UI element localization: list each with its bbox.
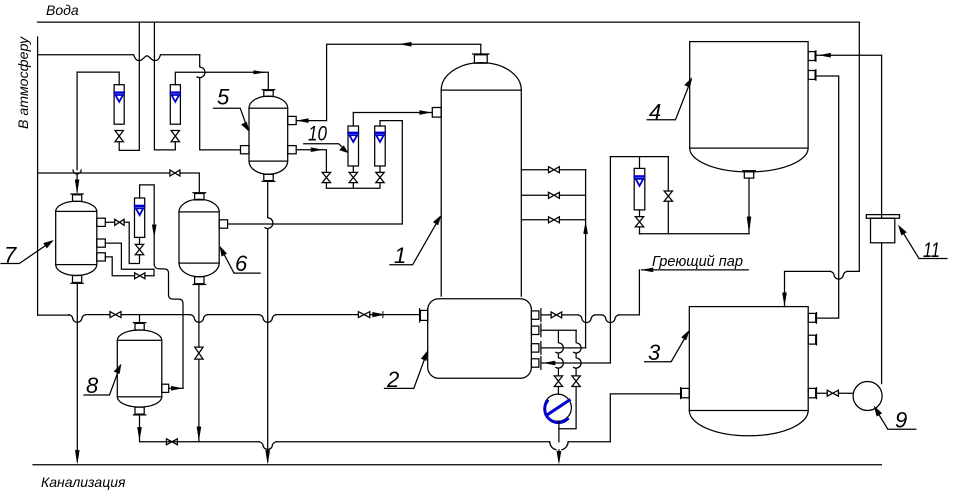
label 7 [1, 241, 53, 268]
svg-text:Канализация: Канализация [41, 474, 126, 490]
wire tank 3 pump suction line [816, 392, 854, 394]
valve on left loop [554, 376, 562, 387]
valve below rot10 right tube [376, 172, 384, 182]
vessel 5 shell [249, 96, 288, 174]
vessel 7 right nozzle N3 [97, 253, 106, 261]
wire water drop line 2 x=154.4 [154, 22, 175, 150]
label 6 [220, 247, 260, 277]
wire vessel 6 right nozzle to rot10 riser [228, 121, 403, 224]
arrow on vessel 8 drain [138, 428, 142, 440]
arrow left on steam line [642, 268, 653, 272]
valve manifold 3 [549, 217, 560, 223]
vessel 5 left nozzle [241, 146, 250, 154]
arrow down into vessel 7 [75, 180, 79, 192]
wire manifold riser x=585.6 down to reboiler vapor line [585, 170, 587, 348]
wire feed header y=173 from vent vertical to vessel 6 [38, 173, 200, 193]
svg-text:Греющий пар: Греющий пар [652, 254, 743, 270]
tank 4 right nozzle upper [808, 51, 816, 62]
vessel 7 right nozzle N2 [97, 239, 106, 247]
wire vent header y=54.8 right part [161, 54, 200, 56]
vessel 5 top nozzle [262, 90, 275, 97]
wire water main drop x=859.4 to tank 3 feed [858, 22, 860, 271]
pump 9 circle [853, 382, 882, 411]
vessel 8 bottom nozzle [133, 407, 145, 415]
wire vessel5 right lower nozzle to rot10 feed [296, 150, 326, 173]
jump dip of steam line under manifold riser x=585.6 [578, 315, 595, 323]
tank 3 shell [689, 307, 808, 436]
label 10 [304, 123, 348, 153]
arrow down into tank 3 [783, 293, 787, 305]
arrow vessel 7 drain into sewer [75, 450, 79, 463]
label 4 [647, 78, 692, 125]
label 9 [874, 407, 916, 433]
tank 3 right nozzle upper [808, 313, 816, 324]
wire vent vertical x=199.7 upper part [199, 55, 201, 67]
wire sewer main y=464.7 [33, 464, 881, 466]
label 1 [390, 216, 441, 269]
column 1 shell [441, 63, 521, 297]
column 1 left nozzle [432, 108, 441, 118]
rotameter 10 right tube [375, 126, 386, 166]
valve on vessel7 N3 line [135, 273, 145, 279]
funnel of collector into sewer [550, 442, 568, 450]
svg-text:6: 6 [235, 251, 248, 276]
wire vent header y=54.8 left part [38, 54, 134, 56]
jump dip of steam line under riser x=610.4 [602, 315, 619, 323]
wire pump discharge riser x=881.6 up to tank 4 [816, 55, 882, 383]
valve on vessel7 N1 line [115, 219, 124, 225]
tank 4 right nozzle lower [808, 70, 816, 81]
wire tank 3 top feed with arrow [785, 271, 860, 306]
valve below rotameter FI-b [171, 131, 179, 142]
wire bottom header y=233.8 to tank 4 drain [640, 233, 750, 235]
wire rotameter FI-b top header to vessel 5 top [175, 72, 268, 90]
wire vessel7 N1 to gauge bottom [105, 222, 139, 263]
wire left loop valve to instrument circle [557, 387, 559, 395]
rotameter FI-a (water to vessel 7) [114, 85, 124, 125]
tank 3 left nozzle [681, 388, 690, 399]
arrow left into tank 4 upper nozzle [820, 53, 831, 57]
vessel 8 right nozzle [162, 384, 169, 392]
wire left loop downcomer with jumps over N3 and N4 lines [555, 330, 563, 376]
wire junction steps down to x=183 drop [154, 265, 183, 315]
vessel 2 right nozzle N2 [531, 324, 541, 337]
tank 4 bottom nozzle [743, 171, 756, 178]
label 8 [84, 364, 121, 398]
rotameter 10 left tube [348, 126, 359, 166]
wire manifold line 3 [521, 219, 585, 221]
wire collector drop into sewer [558, 450, 560, 461]
valve on right loop [572, 376, 580, 387]
arrow into column left nozzle [420, 111, 431, 115]
label 3 [645, 331, 689, 366]
wire rot10 right tube stubs [380, 121, 402, 173]
valve on pump suction [827, 390, 838, 396]
wire collector y=441.8 [166, 441, 610, 443]
wire water main header y=22 [38, 21, 860, 23]
vessel 8 top nozzle [133, 323, 145, 330]
label 2 [385, 351, 428, 392]
svg-text:Вода: Вода [46, 2, 79, 18]
wire vessel 8 outlet to drop x=183 [169, 387, 183, 389]
wire vessel 5 drain lower part to sewer [267, 229, 269, 461]
label 11 [899, 226, 948, 263]
valve below gauge rotameter [135, 244, 143, 254]
arrow collector into sewer [557, 452, 561, 464]
valve below rot10 left tube [349, 172, 357, 182]
wire vessel7 N3 line through valve to junction [105, 257, 154, 276]
jump of vessel 5 drain over vessel6-rot10 line [265, 218, 273, 229]
arrow down on gauge downcomer [152, 225, 156, 237]
vessel 7 shell [56, 201, 97, 275]
wire vessel 8 drain to collector y=441.8 [140, 414, 167, 442]
wire rot10 left tube stubs [352, 113, 354, 173]
valve on feed line before vessel 2 [358, 312, 369, 318]
arrow flow right into vessel 5 top line [254, 71, 265, 74]
separator 11 on discharge riser [866, 215, 899, 243]
valve on vessel 6 drain [195, 347, 203, 359]
wire instrument circle bottom to collector [558, 421, 560, 442]
wire vessel 7 drain x=77.3 to sewer [76, 283, 78, 462]
wire rot10 bottom header [326, 183, 380, 189]
wire rot10 outlet header to column left nozzle [353, 112, 431, 114]
wire nozzle N2 header to loops [541, 329, 576, 331]
svg-text:10: 10 [308, 123, 327, 146]
arrow on vessel 8 outlet [172, 386, 182, 390]
jump dip of feed line y=314.6 under vessel7 drain (drawn with drain gap) [69, 315, 86, 323]
valve on bypass leg [664, 191, 672, 201]
gauge rotameter (sight glass) [135, 198, 145, 237]
arrow left on column top line [401, 42, 412, 46]
wire vent vertical x=199.7 lower part to vessel 5 left nozzle [200, 78, 240, 150]
wire column top to vessel 5 right upper nozzle [296, 44, 481, 120]
wire into vessel 7 top nozzle [76, 174, 78, 192]
instrument circle (condensate trap) [544, 394, 571, 422]
arrow on vessel 6 drain into collector [197, 427, 201, 440]
wire steam label underline [642, 269, 749, 271]
wire steam line y=314.9 to vessel 2 nozzle N1 [541, 314, 639, 316]
vessel 6 shell [179, 199, 219, 276]
valve on feed header [170, 170, 180, 176]
wire vent/atmosphere vertical x=37.6 [37, 37, 39, 315]
vessel 6 bottom nozzle [193, 277, 206, 285]
jump dip under vessel6 drain [190, 315, 207, 323]
wire vessel 6 drain x=198.9 with valve [198, 284, 200, 442]
valve on steam line [551, 312, 562, 318]
wire rotameter drain to bottom header [639, 227, 641, 234]
valve below rotameter [635, 217, 643, 227]
wire drop x=183 from y=314.6 to vessel8 outlet line [182, 315, 184, 389]
wire gauge top header to downcomer x=154.2 [140, 185, 155, 265]
tank 4 shell [690, 42, 808, 172]
wire tank3 upper right nozzle to tank4 lower right nozzle [816, 76, 839, 318]
wire rotameter drop from header [639, 157, 641, 169]
wire bypass right leg with valve [667, 157, 669, 234]
jump dip of collector under vessel5 drain [259, 442, 276, 450]
valve below rotameter FI-a [115, 131, 123, 142]
tank 3 right nozzle lower (to pump) [808, 388, 816, 399]
vessel 2 right nozzle N1 steam in [531, 309, 541, 322]
wire feed line y=314.6 segments with jump dips [38, 314, 420, 317]
vessel 7 right nozzle N1 [97, 218, 106, 226]
svg-text:4: 4 [649, 100, 661, 125]
wire reboiler vapor line y=347.9 nozzle N3 to manifold riser [541, 347, 585, 349]
vessel 5 right upper nozzle [288, 116, 297, 124]
jump dip under vessel5 drain [259, 315, 276, 323]
arrow vessel 5 drain into sewer [266, 451, 270, 464]
arrow left into vessel 5 right upper nozzle [298, 119, 309, 123]
label 5 [214, 85, 250, 132]
wire steam line corner down to y=314.9 [638, 270, 640, 315]
valve on collector [166, 439, 177, 445]
valve rot10 feed leg [322, 172, 330, 182]
wire manifold line 2 [521, 194, 585, 196]
wire top header y=156.6 [610, 156, 668, 158]
vessel 2 right nozzle N4 condensate [531, 357, 541, 370]
wire water drop line 1 x=139.3 [119, 22, 139, 150]
jump dip of tank3 feed line under riser x=838.7 [830, 271, 847, 279]
wire vessel 8 top nozzle to feed line y=314.6 [139, 315, 141, 323]
wire vent header break squiggle over water lines [134, 55, 161, 61]
arrow on rot10 feed line [311, 148, 321, 152]
vessel 7 bottom nozzle [71, 276, 83, 284]
funnel where water line pours into feed header [73, 170, 81, 174]
wire right loop down and left to circle drop [559, 387, 576, 429]
wire vessel7 N2 line to junction [105, 243, 153, 269]
rotameter FI-b (water to vessel 5) [170, 85, 180, 125]
wire vessel 5 drain x=267.7 upper part [267, 181, 269, 218]
vessel 5 bottom nozzle [262, 174, 275, 181]
arrow up on manifold riser [584, 223, 588, 234]
arrow left into nozzle N4 [544, 361, 555, 365]
wire right loop downcomer with jumps over N3 and N4 lines [573, 330, 581, 376]
wire rotameter bottom stub [639, 210, 641, 217]
vessel 7 top nozzle [71, 194, 83, 201]
arrow on feed line into vessel 2 [373, 312, 383, 318]
tank 3 right nozzle middle [808, 334, 816, 345]
svg-text:8: 8 [86, 373, 99, 398]
wire riser x=610.4 from rotameter assembly down to nozzle N4 [541, 157, 610, 363]
column 1 top nozzle [473, 54, 489, 63]
wire gauge rotameter bottom stub [139, 237, 141, 244]
svg-text:5: 5 [217, 85, 230, 110]
vessel 8 shell [117, 330, 162, 407]
rotameter (condensate from tank 4) [634, 168, 645, 210]
vessel 2 left nozzle [420, 309, 428, 322]
vessel 6 top nozzle [193, 193, 206, 200]
svg-text:В атмосферу: В атмосферу [16, 36, 32, 129]
valve on feed line near left [110, 312, 121, 318]
wire collector riser x=610.3 up and right to tank 3 left nozzle [610, 394, 679, 442]
vessel 6 right nozzle [219, 220, 227, 228]
wire rotameter FI-a top to vessel 7 feed [77, 72, 119, 170]
valve manifold 2 [549, 192, 560, 198]
valve manifold 1 [549, 167, 560, 173]
vessel 2 right nozzle N3 vapor out [531, 342, 541, 355]
arrow down on tank 4 drain [747, 217, 751, 232]
vessel 2 shell rounded [428, 299, 532, 379]
wire tank 4 drain down to bottom header [748, 178, 750, 234]
jump of vent vertical over rotameter header y=72.3 [197, 67, 205, 78]
wire manifold line 1 [521, 169, 585, 171]
vessel 5 right lower nozzle [288, 146, 297, 154]
